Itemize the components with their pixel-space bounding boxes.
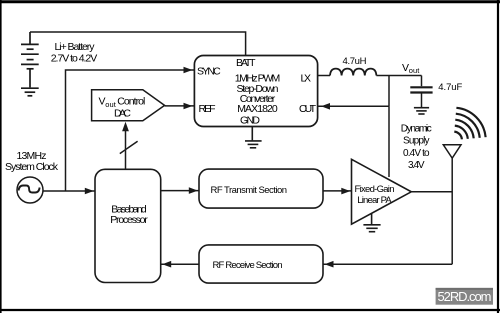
wire 13MHz clock node to SYNC with arrow <box>66 70 195 191</box>
RF receive section block <box>199 245 323 283</box>
label 13MHz System Clock <box>5 150 59 173</box>
svg-text:out: out <box>409 66 420 75</box>
wire inductor to Vout node <box>376 75 421 77</box>
label Dynamic Supply 0.4V to 3.4V <box>401 124 432 171</box>
wire dynamic supply to PA <box>388 106 390 177</box>
wire Vout node to dynamic supply junction <box>388 76 390 107</box>
battery B1 Li+ <box>21 32 39 87</box>
watermark 52RD.com <box>436 288 493 305</box>
svg-text:Linear PA: Linear PA <box>357 195 392 206</box>
bus slash marker <box>120 141 138 153</box>
svg-text:Processor: Processor <box>110 214 148 226</box>
wire Vout node down to capacitor <box>421 76 423 87</box>
wire clock to baseband with arrow <box>43 190 95 192</box>
wire LX to inductor <box>318 75 330 77</box>
capacitor C1 <box>410 87 432 107</box>
wire feedback to OUT with arrow <box>318 105 389 107</box>
svg-text:4.7uF: 4.7uF <box>438 82 462 93</box>
antenna radiation arcs <box>454 108 485 140</box>
svg-text:GND: GND <box>240 115 260 127</box>
wire PA output to antenna <box>411 191 452 193</box>
svg-text:System Clock: System Clock <box>5 161 59 173</box>
svg-text:SYNC: SYNC <box>197 66 221 78</box>
svg-text:4.7uH: 4.7uH <box>343 56 367 67</box>
svg-text:Li+ Battery: Li+ Battery <box>55 41 96 53</box>
svg-text:RF Receive Section: RF Receive Section <box>213 260 283 271</box>
svg-text:MAX1820: MAX1820 <box>237 103 278 115</box>
ground (PA) <box>363 213 380 232</box>
antenna <box>443 145 461 158</box>
svg-text:Fixed-Gain: Fixed-Gain <box>355 184 395 195</box>
svg-text:Supply: Supply <box>403 136 430 147</box>
label Li+ Battery 2.7V to 4.2V <box>51 41 98 65</box>
wire baseband to RF transmit with arrow <box>161 190 199 192</box>
svg-text:3.4V: 3.4V <box>408 160 425 171</box>
wire battery to BATT pin <box>30 32 246 56</box>
ground (battery) <box>21 88 39 96</box>
RF transmit section block <box>199 169 323 208</box>
wire DAC to REF with arrow <box>165 105 194 107</box>
IC U1 MAX1820 step-down converter <box>194 56 317 127</box>
DAC U2 Vout Control <box>92 90 165 121</box>
svg-text:2.7V to 4.2V: 2.7V to 4.2V <box>51 53 98 65</box>
svg-text:0.4V to: 0.4V to <box>403 148 430 159</box>
svg-text:Dynamic: Dynamic <box>401 124 432 135</box>
svg-text:DAC: DAC <box>114 107 131 119</box>
svg-text:OUT: OUT <box>299 103 317 115</box>
baseband processor block <box>95 169 161 282</box>
clock source 13MHz <box>17 177 43 203</box>
ground (MAX1820 GND pin) <box>245 127 262 148</box>
svg-text:REF: REF <box>199 103 216 115</box>
svg-text:Control: Control <box>117 96 145 108</box>
wire antenna to RF receive with arrow <box>323 263 452 265</box>
svg-text:52RD.com: 52RD.com <box>438 289 492 304</box>
wire RF transmit to PA with arrow <box>323 190 352 192</box>
inductor L1 <box>330 69 376 76</box>
label 1MHz PWM Step-Down Converter MAX1820 <box>235 73 281 116</box>
ground (capacitor) <box>414 108 429 114</box>
svg-text:RF Transmit Section: RF Transmit Section <box>211 185 288 196</box>
svg-text:BATT: BATT <box>236 57 256 69</box>
wire baseband to DAC with arrow <box>125 131 127 170</box>
wire RF receive to baseband with arrow <box>161 263 199 265</box>
svg-text:LX: LX <box>301 73 312 85</box>
power amplifier PA fixed-gain linear <box>352 159 412 224</box>
